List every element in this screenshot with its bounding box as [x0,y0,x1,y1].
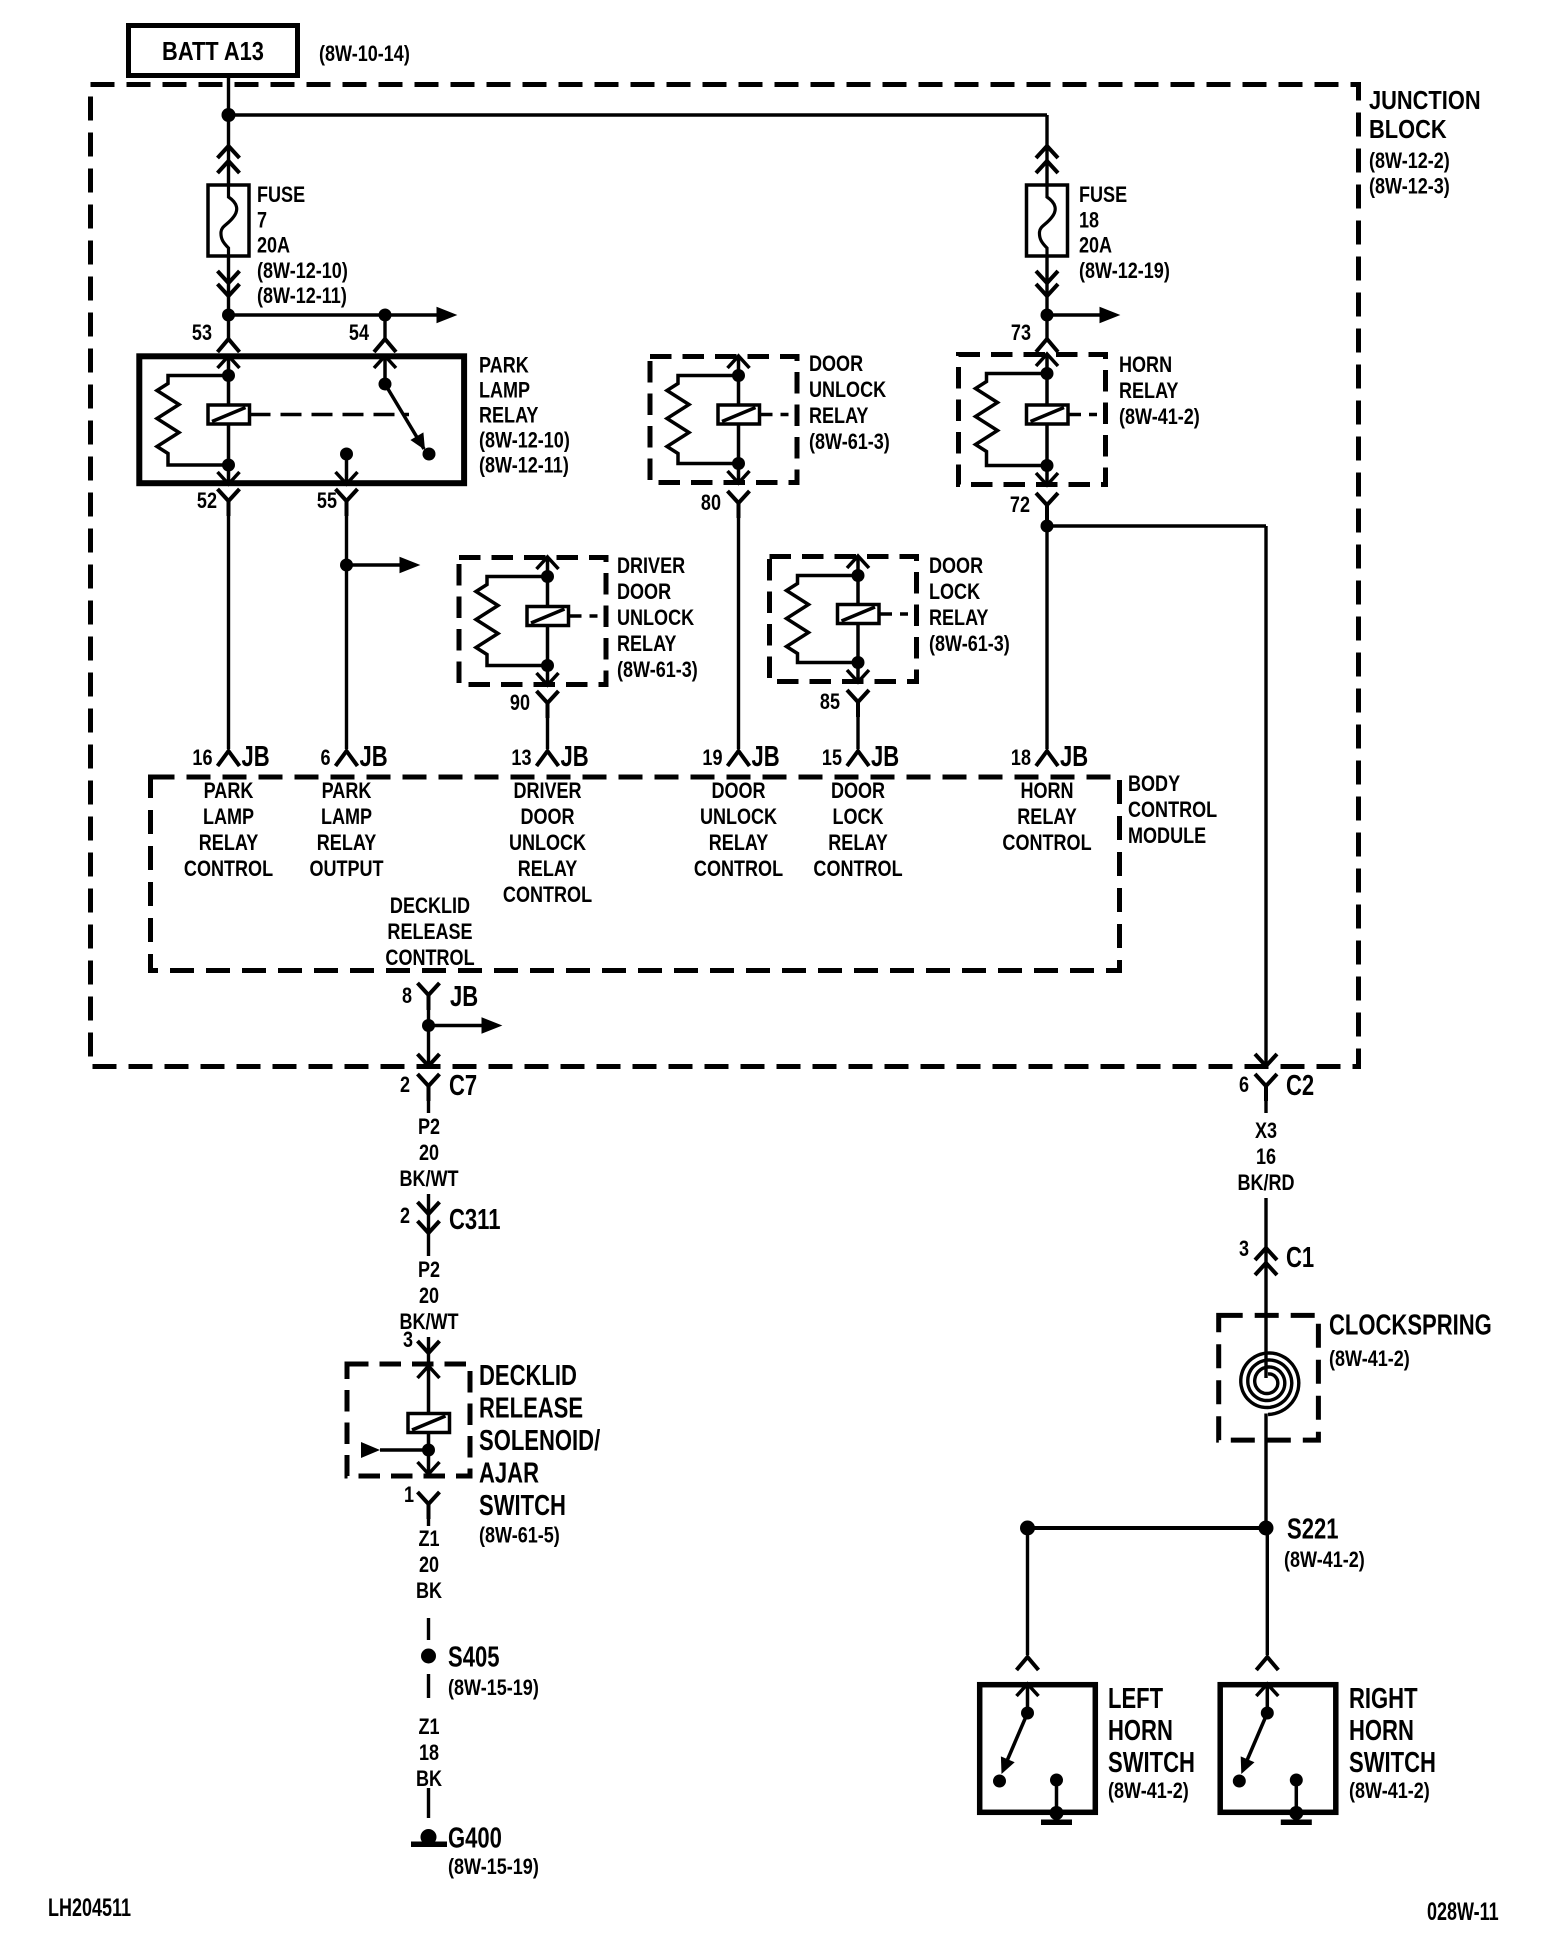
svg-text:JB: JB [1060,741,1088,773]
svg-text:54: 54 [349,321,370,345]
svg-text:C1: C1 [1286,1242,1314,1274]
svg-text:BATT A13: BATT A13 [162,37,264,66]
svg-text:C311: C311 [449,1204,500,1236]
svg-text:3: 3 [403,1328,413,1352]
svg-text:(8W-12-10): (8W-12-10) [257,259,348,283]
svg-text:LEFT: LEFT [1108,1683,1163,1715]
svg-text:LH204511: LH204511 [48,1893,131,1922]
svg-text:2: 2 [400,1204,410,1228]
svg-text:BK/WT: BK/WT [399,1167,459,1191]
svg-text:13: 13 [511,746,531,770]
svg-text:DRIVER: DRIVER [513,779,582,803]
svg-text:LAMP: LAMP [321,805,372,829]
svg-text:JB: JB [871,741,899,773]
svg-text:18: 18 [419,1741,439,1765]
svg-text:G400: G400 [448,1823,502,1855]
svg-text:1: 1 [404,1483,414,1507]
svg-text:RELAY: RELAY [809,404,869,428]
svg-text:16: 16 [192,746,212,770]
svg-text:RELAY: RELAY [317,831,377,855]
svg-text:DOOR: DOOR [520,805,575,829]
svg-text:SWITCH: SWITCH [1108,1747,1195,1779]
svg-text:RELAY: RELAY [1119,379,1179,403]
svg-text:JB: JB [450,981,478,1013]
svg-text:80: 80 [701,491,721,515]
svg-text:CONTROL: CONTROL [503,883,592,907]
svg-text:JB: JB [242,741,270,773]
svg-text:RELAY: RELAY [1017,805,1077,829]
svg-text:SWITCH: SWITCH [1349,1747,1436,1779]
svg-text:UNLOCK: UNLOCK [700,805,778,829]
svg-text:(8W-41-2): (8W-41-2) [1119,405,1200,429]
svg-text:6: 6 [320,746,330,770]
svg-text:DOOR: DOOR [929,554,984,578]
svg-text:PARK: PARK [322,779,372,803]
svg-text:LOCK: LOCK [832,805,884,829]
svg-text:85: 85 [820,690,840,714]
svg-text:RELAY: RELAY [199,831,259,855]
svg-text:LAMP: LAMP [479,379,530,403]
svg-text:OUTPUT: OUTPUT [309,857,384,881]
svg-text:DOOR: DOOR [617,580,672,604]
svg-text:19: 19 [702,746,722,770]
svg-text:6: 6 [1239,1073,1249,1097]
svg-text:AJAR: AJAR [479,1458,539,1490]
svg-text:SOLENOID/: SOLENOID/ [479,1425,600,1457]
svg-text:DOOR: DOOR [831,779,886,803]
svg-text:CONTROL: CONTROL [385,946,474,970]
svg-text:7: 7 [257,209,267,233]
svg-text:8: 8 [402,984,412,1008]
svg-text:DOOR: DOOR [809,352,864,376]
svg-text:RELAY: RELAY [828,831,888,855]
svg-text:RELAY: RELAY [929,606,989,630]
svg-text:(8W-12-2): (8W-12-2) [1369,149,1450,173]
svg-text:18: 18 [1011,746,1031,770]
svg-text:(8W-41-2): (8W-41-2) [1108,1779,1189,1803]
svg-text:CONTROL: CONTROL [1002,831,1091,855]
svg-text:HORN: HORN [1108,1715,1173,1747]
svg-text:JUNCTION: JUNCTION [1369,86,1481,115]
svg-text:DRIVER: DRIVER [617,554,686,578]
svg-text:JB: JB [360,741,388,773]
svg-text:(8W-61-3): (8W-61-3) [617,658,698,682]
svg-text:20: 20 [419,1553,439,1577]
svg-text:55: 55 [317,489,337,513]
svg-text:(8W-61-3): (8W-61-3) [809,430,890,454]
svg-text:(8W-12-3): (8W-12-3) [1369,175,1450,199]
svg-text:CONTROL: CONTROL [1128,798,1217,822]
svg-text:(8W-61-3): (8W-61-3) [929,632,1010,656]
svg-text:CONTROL: CONTROL [813,857,902,881]
svg-text:(8W-12-19): (8W-12-19) [1079,259,1170,283]
svg-text:2: 2 [400,1073,410,1097]
svg-text:P2: P2 [418,1115,440,1139]
svg-text:DECKLID: DECKLID [479,1360,577,1392]
svg-text:HORN: HORN [1119,353,1172,377]
svg-text:18: 18 [1079,209,1099,233]
svg-text:(8W-41-2): (8W-41-2) [1349,1779,1430,1803]
svg-text:(8W-10-14): (8W-10-14) [319,42,410,66]
svg-text:PARK: PARK [479,354,529,378]
svg-text:JB: JB [561,741,589,773]
svg-text:JB: JB [752,741,780,773]
svg-text:Z1: Z1 [418,1527,439,1551]
svg-text:20A: 20A [1079,234,1112,258]
svg-text:S405: S405 [448,1642,499,1674]
svg-text:FUSE: FUSE [257,183,305,207]
svg-text:(8W-12-10): (8W-12-10) [479,429,570,453]
svg-text:53: 53 [192,321,212,345]
svg-text:RELAY: RELAY [518,857,578,881]
svg-text:BK/RD: BK/RD [1237,1171,1294,1195]
svg-text:MODULE: MODULE [1128,824,1206,848]
svg-text:DECKLID: DECKLID [390,894,470,918]
svg-text:RELAY: RELAY [617,632,677,656]
svg-text:BK: BK [416,1767,442,1791]
svg-text:CONTROL: CONTROL [694,857,783,881]
svg-text:(8W-41-2): (8W-41-2) [1329,1347,1410,1371]
svg-text:73: 73 [1011,321,1031,345]
svg-text:S221: S221 [1287,1514,1338,1546]
svg-text:(8W-15-19): (8W-15-19) [448,1855,539,1879]
svg-text:Z1: Z1 [418,1715,439,1739]
svg-text:BLOCK: BLOCK [1369,115,1447,144]
svg-text:HORN: HORN [1349,1715,1414,1747]
svg-text:RIGHT: RIGHT [1349,1683,1418,1715]
svg-text:X3: X3 [1255,1119,1277,1143]
svg-text:RELEASE: RELEASE [479,1393,583,1425]
svg-text:52: 52 [197,489,217,513]
svg-text:20: 20 [419,1284,439,1308]
svg-text:90: 90 [510,691,530,715]
svg-text:C7: C7 [449,1070,477,1102]
svg-text:3: 3 [1239,1237,1249,1261]
svg-text:CONTROL: CONTROL [184,857,273,881]
svg-text:LOCK: LOCK [929,580,981,604]
svg-text:BK: BK [416,1579,442,1603]
svg-text:LAMP: LAMP [203,805,254,829]
svg-text:DOOR: DOOR [711,779,766,803]
svg-text:HORN: HORN [1020,779,1073,803]
svg-text:(8W-12-11): (8W-12-11) [257,285,347,309]
svg-text:028W-11: 028W-11 [1427,1897,1499,1926]
svg-text:(8W-15-19): (8W-15-19) [448,1676,539,1700]
svg-text:20: 20 [419,1141,439,1165]
svg-text:C2: C2 [1286,1070,1314,1102]
svg-text:UNLOCK: UNLOCK [809,378,887,402]
svg-text:(8W-41-2): (8W-41-2) [1284,1548,1365,1572]
svg-text:FUSE: FUSE [1079,183,1127,207]
svg-text:RELAY: RELAY [709,831,769,855]
svg-text:UNLOCK: UNLOCK [509,831,587,855]
svg-text:16: 16 [1256,1145,1276,1169]
svg-text:SWITCH: SWITCH [479,1490,566,1522]
svg-text:RELAY: RELAY [479,404,539,428]
svg-text:(8W-12-11): (8W-12-11) [479,454,569,478]
svg-text:BODY: BODY [1128,772,1181,796]
svg-text:(8W-61-5): (8W-61-5) [479,1524,560,1548]
svg-text:15: 15 [822,746,842,770]
svg-text:UNLOCK: UNLOCK [617,606,695,630]
svg-text:CLOCKSPRING: CLOCKSPRING [1329,1310,1492,1342]
svg-text:72: 72 [1010,493,1030,517]
svg-text:P2: P2 [418,1258,440,1282]
svg-text:RELEASE: RELEASE [387,920,472,944]
svg-text:PARK: PARK [204,779,254,803]
svg-text:20A: 20A [257,234,290,258]
